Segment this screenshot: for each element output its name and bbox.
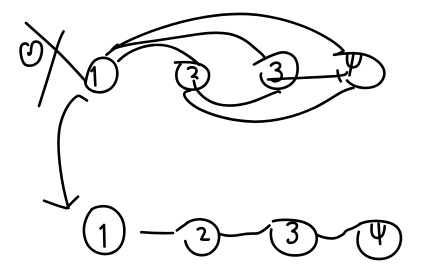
label 1 (bottom) xyxy=(101,225,105,247)
arrow arc from node 2 to node 3 (below) xyxy=(196,89,280,106)
label 2 (bottom) xyxy=(198,228,209,240)
bottom node circle 1 xyxy=(84,206,124,254)
link line from bottom 2 to bottom 3 xyxy=(220,226,270,236)
X cross stroke (down-right) xyxy=(26,23,84,80)
line from node 3 to node 4 xyxy=(268,72,347,79)
arrow arc from node 2 to node 1 xyxy=(118,45,199,65)
label 3 (bottom) xyxy=(288,223,297,243)
bottom node circle 4 xyxy=(358,221,401,259)
label 1 (top) xyxy=(92,67,96,85)
node 0 scribble (head sentinel) xyxy=(21,42,42,66)
arrow arc from node 4 to node 1 (outer top) xyxy=(107,14,344,55)
top node circle 2 xyxy=(175,62,209,89)
top node circle 1 xyxy=(85,58,117,92)
label 4 (top) xyxy=(347,54,361,67)
label 4 (bottom) xyxy=(372,225,385,238)
X cross stroke (down-left) xyxy=(39,32,64,107)
arrowhead tick at node 4 xyxy=(338,71,341,82)
label 2 (top) xyxy=(188,67,197,78)
dash between bottom 1 and 2 xyxy=(141,232,173,233)
top node circle 3 xyxy=(254,52,298,88)
top node circle 4 xyxy=(334,53,384,88)
long bottom arc from node 2 to node 4 xyxy=(184,88,353,122)
bottom node circle 2 xyxy=(185,219,219,255)
arrow arc from node 3 to node 1 (inner top) xyxy=(114,33,265,57)
link line from bottom 3 to bottom 4 xyxy=(317,224,360,238)
bottom node circle 3 xyxy=(271,220,317,256)
arrowhead tick near node 1 xyxy=(112,45,118,50)
label 3 (top) xyxy=(271,63,282,82)
rising link into bottom node 2 xyxy=(177,224,186,231)
big curved arrow down to bottom row xyxy=(59,96,87,208)
arrowhead of big curved arrow xyxy=(44,197,78,209)
